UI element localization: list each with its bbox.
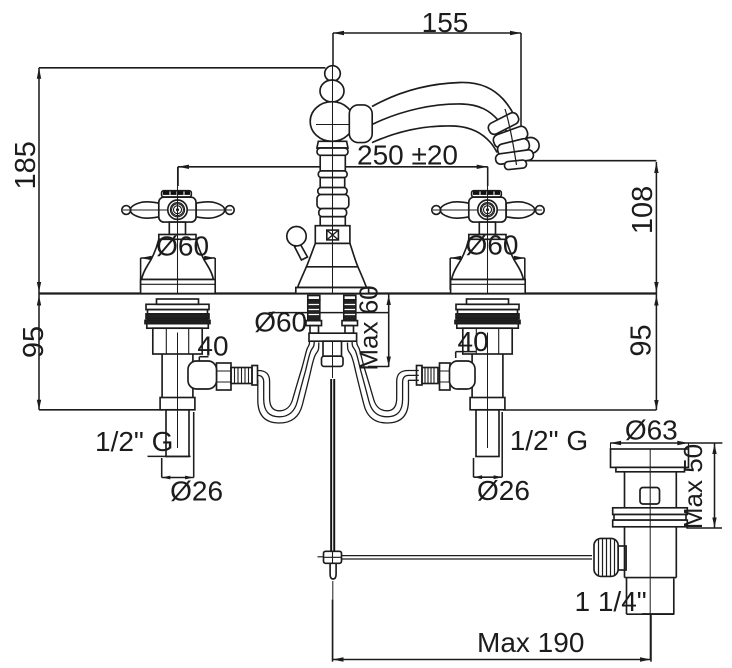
svg-text:Ø60: Ø60 (466, 230, 519, 261)
svg-text:Ø63: Ø63 (625, 415, 678, 446)
svg-text:40: 40 (458, 326, 489, 357)
svg-text:1/2" G: 1/2" G (510, 425, 588, 456)
svg-text:Ø26: Ø26 (477, 475, 530, 506)
svg-text:95: 95 (626, 324, 658, 356)
svg-text:1 1/4": 1 1/4" (575, 586, 647, 617)
svg-text:Ø26: Ø26 (170, 476, 223, 507)
svg-text:Max 50: Max 50 (678, 444, 708, 529)
svg-text:Ø60: Ø60 (156, 231, 209, 262)
svg-text:Ø60: Ø60 (254, 307, 307, 338)
svg-text:Max 60: Max 60 (354, 285, 384, 370)
svg-text:1/2" G: 1/2" G (95, 426, 173, 457)
svg-text:Max 190: Max 190 (477, 627, 584, 658)
svg-text:108: 108 (627, 186, 659, 234)
svg-text:155: 155 (422, 7, 469, 38)
svg-text:185: 185 (10, 141, 42, 189)
svg-text:40: 40 (197, 331, 228, 362)
svg-text:95: 95 (18, 326, 50, 358)
svg-text:250 ±20: 250 ±20 (357, 140, 458, 171)
